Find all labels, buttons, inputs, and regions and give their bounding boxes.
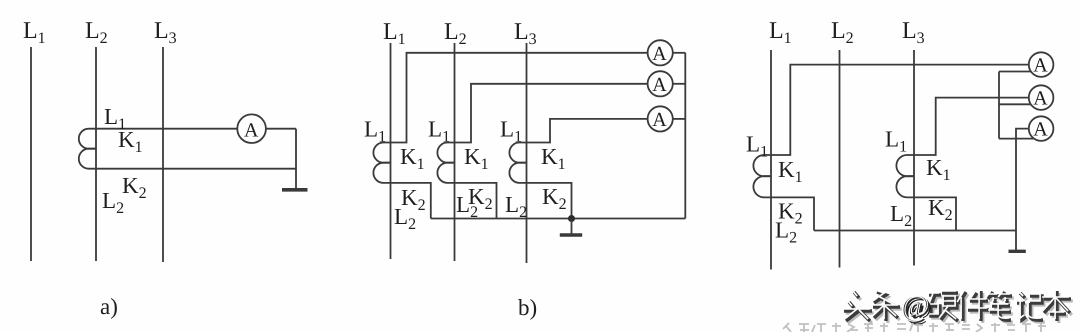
svg-text:K1: K1 <box>464 144 489 173</box>
A1 right stub (b) <box>673 52 686 54</box>
return bus vertical (c) <box>998 72 1000 139</box>
right return bus (b) <box>684 53 686 219</box>
svg-text:L2: L2 <box>85 18 108 47</box>
svg-text:b): b) <box>518 295 537 320</box>
svg-text:L1: L1 <box>769 18 792 47</box>
K2 common bus (c) <box>814 230 1016 232</box>
junction dot (b) <box>568 215 575 222</box>
svg-text:L1: L1 <box>364 117 386 146</box>
ground (c) <box>1009 250 1026 253</box>
ammeter A3 (b) <box>648 106 673 131</box>
svg-text:L2: L2 <box>831 18 854 47</box>
wire right vertical (a) <box>295 129 297 189</box>
CT1 K1 wire + riser to A1 (b) <box>391 53 648 143</box>
svg-text:A: A <box>652 74 667 96</box>
svg-text:a): a) <box>100 294 118 319</box>
K2 common bus (b) <box>431 218 686 220</box>
svg-text:K1: K1 <box>400 144 425 173</box>
ammeter A1 (b) <box>648 40 673 65</box>
wire K2 return (a) <box>96 168 296 170</box>
CT3 K2 drop (b) <box>527 183 572 219</box>
A3 right stub (b) <box>673 118 686 120</box>
phase line L2 (c) <box>839 50 841 268</box>
svg-text:K2: K2 <box>928 195 953 224</box>
svg-text:@: @ <box>901 289 929 322</box>
svg-text:L1: L1 <box>428 117 450 146</box>
wire ammeter to corner (a) <box>266 128 296 130</box>
svg-text:L2: L2 <box>890 201 912 230</box>
svg-text:A: A <box>244 120 259 142</box>
svg-text:A: A <box>652 43 667 65</box>
soft gray drop shade lower-right <box>846 293 1073 323</box>
CT3 winding arcs (b) <box>509 143 526 163</box>
svg-text:K2: K2 <box>122 173 147 202</box>
phase line L3 (a) <box>162 47 164 262</box>
svg-text:K2: K2 <box>542 184 567 213</box>
svg-text:A: A <box>1033 88 1048 110</box>
svg-text:K1: K1 <box>926 155 951 184</box>
svg-text:L2: L2 <box>505 192 527 221</box>
main dark strokes <box>844 291 1071 321</box>
svg-text:K1: K1 <box>778 157 803 186</box>
phase line L3 (b) <box>526 43 528 263</box>
CT2 K1 wire + riser to A2 (c) <box>914 98 1029 155</box>
wire K1 to ammeter (a) <box>96 128 237 130</box>
svg-text:L1: L1 <box>746 132 768 161</box>
ground (a) <box>282 188 308 192</box>
CT2 K1 wire + riser to A2 (b) <box>455 84 648 143</box>
svg-text:L2: L2 <box>102 188 124 217</box>
A1 return stub (c) <box>999 71 1031 73</box>
faint caption under watermark <box>783 323 1046 332</box>
ground stub (b) <box>571 219 573 234</box>
svg-text:L3: L3 <box>154 18 177 47</box>
svg-text:L1: L1 <box>383 19 406 48</box>
A2 return stub (c) <box>999 103 1031 105</box>
svg-text:L1: L1 <box>885 127 907 156</box>
svg-text:A: A <box>1033 119 1048 141</box>
CT2 K2 drop (b) <box>455 183 497 219</box>
A3 feed wire (c) <box>1016 129 1029 250</box>
ammeter A2 (b) <box>648 71 673 96</box>
ammeter A2 (c) <box>1029 85 1054 110</box>
CT1 K1 wire + riser to A1 (c) <box>771 65 1029 155</box>
svg-text:L1: L1 <box>23 18 46 47</box>
CT2 winding arcs (b) <box>437 143 454 163</box>
CT1 winding arcs (b) <box>373 143 390 163</box>
phase line L1 (b) <box>390 43 392 259</box>
CT3 K1 wire + riser to A3 (b) <box>527 119 648 143</box>
ground (b) <box>560 233 582 236</box>
A2 right stub (b) <box>673 83 686 85</box>
CT2 winding arcs (c) <box>896 155 914 176</box>
svg-text:K1: K1 <box>118 127 143 156</box>
svg-text:A: A <box>652 109 667 131</box>
CT winding K (a) upper arc <box>79 129 96 149</box>
svg-text:L3: L3 <box>514 19 537 48</box>
CT2 K2 drop (c) <box>914 197 956 230</box>
svg-text:L3: L3 <box>902 18 925 47</box>
svg-text:L2: L2 <box>444 19 467 48</box>
CT winding K (a) lower arc <box>79 149 96 169</box>
phase line L1 (c) <box>770 50 772 270</box>
ammeter A3 (c) <box>1029 116 1054 141</box>
phase line L2 (a) <box>95 47 97 261</box>
phase line L2 (b) <box>454 43 456 261</box>
CT1 K2 drop (c) <box>771 197 814 230</box>
phase line L1 (a) <box>30 47 32 261</box>
white emboss highlight upper-left <box>842 289 1069 319</box>
CT1 winding arcs (c) <box>753 155 771 176</box>
phase line L3 (c) <box>913 50 915 266</box>
A3 return stub (c) <box>999 138 1034 140</box>
svg-text:K1: K1 <box>541 144 566 173</box>
svg-text:L1: L1 <box>500 117 522 146</box>
ammeter A (a) <box>237 114 266 143</box>
svg-text:A: A <box>1033 55 1048 77</box>
ammeter A1 (c) <box>1029 52 1054 77</box>
CT1 K2 drop (b) <box>391 183 431 219</box>
